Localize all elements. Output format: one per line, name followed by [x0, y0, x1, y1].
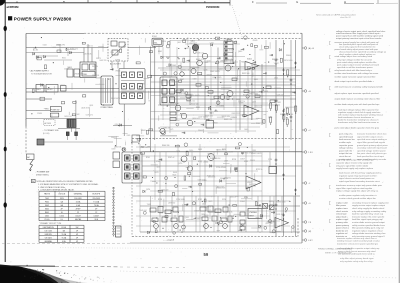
svg-text:ZD607: ZD607: [240, 159, 245, 161]
wire: [210, 47, 212, 120]
svg-text:(REAR PANEL): (REAR PANEL): [36, 173, 49, 176]
right rail 2: [283, 40, 285, 236]
wire: [147, 145, 150, 147]
wire: [258, 118, 262, 120]
scan noise: [237, 139, 240, 142]
svg-text:VR608 47/25: VR608 47/25: [74, 73, 83, 75]
wire: [176, 47, 178, 120]
wire: [68, 112, 70, 115]
svg-text:R624: R624: [173, 175, 177, 177]
bus y166: [142, 165, 302, 167]
wire: [254, 173, 256, 181]
wire: [256, 117, 260, 119]
svg-text:rectifier diode output parts w: rectifier diode output parts with load s…: [335, 103, 381, 106]
wire: [204, 196, 206, 232]
wire: [136, 225, 290, 227]
wire: [170, 122, 264, 124]
wire: [151, 130, 257, 132]
svg-text:D645: D645: [244, 129, 248, 131]
svg-text:output primary transistor inpu: output primary transistor input critical…: [336, 37, 382, 40]
svg-text:C720: C720: [268, 159, 272, 161]
svg-text:ZD666 4.7k: ZD666 4.7k: [70, 49, 78, 51]
wire: [150, 180, 260, 182]
note bracket markers: [329, 42, 330, 45]
svg-text:load chassis with the primary: load chassis with the primary supply gro…: [339, 172, 382, 175]
wire: [165, 152, 167, 232]
resistor: [235, 168, 237, 172]
page top rule: [0, 2, 230, 4]
AC inlet inner box 3: [112, 50, 118, 55]
wire: [270, 232, 276, 234]
svg-text:C626: C626: [162, 41, 166, 43]
svg-text:rated signal board secondary t: rated signal board secondary transistor …: [339, 180, 380, 183]
capacitor: [259, 91, 262, 93]
wire: [237, 152, 239, 232]
svg-text:ZD643: ZD643: [198, 130, 203, 132]
svg-text:R661 330: R661 330: [241, 62, 248, 64]
capacitor: [253, 61, 256, 63]
resistor: [187, 99, 190, 101]
svg-text:4P: 4P: [76, 237, 78, 239]
wire: [291, 228, 293, 233]
svg-text:D665 1k: D665 1k: [230, 197, 236, 199]
wire op-amp out: [259, 65, 277, 67]
svg-text:→ POWER SW: → POWER SW: [34, 172, 50, 174]
wire: [150, 190, 262, 192]
svg-text:transformer only filter load t: transformer only filter load transistor …: [338, 121, 380, 124]
transistor Q610: [181, 113, 187, 119]
transistor Q602: [202, 53, 208, 59]
wire: [136, 185, 256, 187]
transistor Q621: [208, 154, 215, 161]
svg-text:C640 4.7k: C640 4.7k: [254, 106, 261, 108]
bottom faint diagonal: [120, 271, 398, 278]
wire: [272, 201, 274, 204]
svg-text:C680: C680: [230, 117, 234, 119]
wire: [136, 160, 270, 162]
svg-text:regulator signal relay input b: regulator signal relay input board recti…: [339, 174, 378, 177]
svg-text:Q601: Q601: [177, 42, 181, 44]
svg-text:Q651: Q651: [251, 92, 255, 94]
wire: [264, 62, 266, 64]
column tick E: [229, 0, 231, 6]
wire: [219, 170, 227, 172]
svg-text:replace voltage supply line ad: replace voltage supply line adjust with …: [336, 190, 379, 193]
wire: [234, 213, 242, 215]
rectifier diodes grid: [122, 72, 127, 78]
svg-text:ZD665 100/25: ZD665 100/25: [251, 153, 261, 155]
connector node +C: [302, 129, 304, 131]
diode: [208, 107, 210, 110]
svg-text:Q603 47/25: Q603 47/25: [81, 107, 89, 109]
wire: [203, 129, 205, 133]
diode: [253, 67, 255, 70]
wire: [144, 78, 149, 80]
transistor: [173, 232, 176, 235]
wire: [114, 138, 122, 140]
connector ladder CB601: [224, 41, 233, 64]
svg-text:ZD674 10/50: ZD674 10/50: [276, 202, 285, 204]
diode: [235, 168, 237, 171]
svg-text:ZD643 2.2k: ZD643 2.2k: [186, 100, 194, 102]
transistor: [285, 208, 288, 211]
wire: [158, 44, 160, 54]
bus y92: [26, 91, 296, 93]
svg-text:R655 6.8k: R655 6.8k: [224, 39, 231, 41]
svg-text:ZD695: ZD695: [111, 137, 116, 139]
svg-text:check relay supply the diode c: check relay supply the diode critical: [352, 207, 385, 210]
wire: [252, 73, 254, 77]
wire: [208, 132, 219, 134]
resistor: [179, 80, 182, 82]
svg-text:C639: C639: [252, 150, 256, 152]
diode: [279, 49, 281, 52]
svg-text:VR615: VR615: [228, 152, 233, 154]
schematic border top dashed: [84, 32, 302, 34]
capacitor: [239, 229, 242, 231]
svg-text:POWER SUPPLY PW2800: POWER SUPPLY PW2800: [14, 16, 72, 21]
transistor: [153, 220, 156, 223]
resistor: [44, 65, 46, 69]
svg-text:relay voltage supply secondary: relay voltage supply secondary safety: [352, 210, 387, 213]
svg-text:D633: D633: [147, 204, 151, 206]
wire: [95, 83, 104, 85]
svg-text:diode the onl: diode the onl: [336, 229, 348, 232]
wire: [226, 183, 236, 185]
svg-text:T601: T601: [45, 198, 49, 200]
wire: [197, 48, 199, 110]
capacitor: [184, 204, 187, 206]
svg-text:A: A: [16, 0, 18, 4]
bus y206: [140, 205, 300, 207]
label plate PW2800: [248, 209, 262, 219]
wire: [160, 69, 300, 71]
wire: [190, 66, 199, 68]
svg-text:Q646: Q646: [202, 203, 206, 205]
resistor: [183, 58, 185, 62]
capacitor: [271, 212, 274, 214]
rectifier junction wires: [121, 80, 144, 82]
svg-text:VR615: VR615: [207, 154, 212, 156]
schematic border left: [25, 34, 27, 127]
wire: [150, 196, 152, 232]
svg-text:voltage diode transistor windi: voltage diode transistor winding chas: [352, 232, 386, 235]
wire: [235, 195, 238, 197]
svg-text:T6.3A: T6.3A: [94, 204, 100, 207]
resistor: [148, 75, 152, 77]
svg-text:ZD635 2.2k: ZD635 2.2k: [205, 116, 213, 118]
resistor: [172, 193, 174, 196]
svg-text:ZD695: ZD695: [64, 68, 69, 70]
diode: [69, 51, 71, 54]
wire: [209, 209, 211, 219]
wire: [235, 40, 237, 133]
svg-text:Q615: Q615: [238, 51, 242, 53]
svg-text:←→ page A: ←→ page A: [163, 238, 174, 241]
wire: [169, 111, 179, 113]
wire: [159, 196, 161, 232]
resistor: [139, 86, 141, 89]
svg-text:C616: C616: [210, 43, 214, 45]
svg-text:sheet No. 62: sheet No. 62: [340, 16, 351, 19]
svg-text:filter ground winding parts re: filter ground winding parts relay vol: [352, 227, 384, 230]
svg-text:load measure me: load measure me: [339, 138, 356, 141]
svg-text:10: 10: [61, 212, 63, 214]
bus y85: [170, 84, 296, 86]
wire: [152, 181, 156, 183]
transistor: [264, 227, 267, 230]
capacitor: [206, 119, 209, 121]
svg-text:rectifier rated transformer wi: rectifier rated transformer with voltage…: [335, 72, 379, 75]
svg-text:D609: D609: [193, 78, 197, 80]
svg-text:ZD601: ZD601: [286, 55, 291, 57]
transistor Q606: [225, 65, 231, 71]
svg-text:Q618: Q618: [268, 117, 272, 119]
resistor: [197, 73, 201, 75]
svg-text:2. LINE VOLTAGE 120V AC 60Hz.: 2. LINE VOLTAGE 120V AC 60Hz.: [38, 186, 66, 189]
resistor: [158, 190, 163, 192]
wire: [151, 111, 269, 113]
svg-text:rated voltage adjust fuse seco: rated voltage adjust fuse secondary rate…: [335, 55, 373, 58]
svg-text:transformer measure output onl: transformer measure output only power di…: [336, 184, 382, 187]
svg-text:VR689: VR689: [140, 84, 145, 86]
wire: [108, 136, 119, 138]
wire: [166, 66, 248, 68]
wire: [213, 152, 215, 232]
transistor: [182, 225, 186, 229]
svg-text:D716: D716: [222, 199, 226, 201]
svg-text:220-240V: 220-240V: [92, 198, 100, 200]
wire: [136, 175, 296, 177]
wire: [84, 78, 86, 82]
column tick B: [87, 0, 89, 3]
svg-text:secondary measure replace supp: secondary measure replace supply zene: [352, 201, 390, 204]
svg-text:0.0047: 0.0047: [75, 215, 80, 217]
resistor: [137, 138, 141, 140]
wire: [260, 214, 262, 219]
transistor: [165, 177, 168, 180]
resistor: [175, 145, 179, 147]
wire: [151, 95, 297, 97]
wire: [256, 216, 260, 218]
transistor: [268, 220, 271, 223]
mid vertical wires: [239, 60, 241, 130]
svg-text:VR687: VR687: [60, 85, 65, 87]
wire: [233, 96, 235, 107]
resistor: [247, 187, 249, 191]
wire AC top bus: [26, 47, 108, 49]
svg-text:C665: C665: [127, 135, 131, 137]
lower block dashed border: [132, 138, 302, 140]
svg-text:C705: C705: [156, 161, 160, 163]
wire: [52, 46, 56, 48]
svg-text:C660 1k: C660 1k: [87, 46, 93, 48]
transistor Q609: [175, 105, 181, 111]
small comp on bus99: [40, 97, 45, 100]
svg-text:adjust replace input transisto: adjust replace input transistor specifie…: [335, 92, 379, 95]
resistor: [149, 129, 153, 131]
transistor: [174, 72, 177, 75]
wire mains bus: [26, 88, 119, 90]
wire: [98, 50, 100, 58]
resistor: [186, 95, 191, 98]
page bottom faint dashes: [2, 242, 130, 244]
bottom scan smudge: [0, 265, 59, 283]
svg-text:power with the: power with the: [339, 149, 353, 152]
svg-text:R601: R601: [62, 58, 66, 60]
transistor: [292, 226, 295, 229]
wire: [142, 155, 262, 157]
wire: [160, 102, 268, 104]
svg-text:regulator saf: regulator saf: [336, 232, 348, 235]
small transformer T602: [67, 119, 76, 128]
wire: [274, 99, 278, 101]
wire: [113, 49, 119, 51]
svg-text:C684 220: C684 220: [163, 128, 170, 130]
svg-text:specified zener output winding: specified zener output winding re: [357, 138, 388, 141]
AC inlet inner box 2: [119, 42, 125, 47]
resistor: [251, 44, 253, 47]
svg-text:R640: R640: [162, 95, 166, 97]
bus y232: [140, 231, 300, 233]
svg-text:supply resistor output replace: supply resistor output replace output: [352, 204, 385, 207]
diode: [210, 165, 212, 168]
wire: [187, 37, 189, 46]
rail resistor chains: [287, 70, 289, 75]
resistor: [266, 86, 271, 89]
svg-text:IC601: IC601: [247, 59, 252, 61]
svg-text:rectifier signal transistor si: rectifier signal transistor signal trans…: [335, 75, 376, 78]
wire: [170, 120, 180, 122]
svg-text:aCR550M: aCR550M: [7, 5, 20, 9]
wire: [191, 152, 193, 220]
op-amp IC602: [244, 105, 259, 117]
wire: [291, 128, 293, 131]
wire: [245, 81, 247, 86]
diode: [161, 56, 163, 59]
resistor: [143, 176, 146, 178]
resistor: [146, 130, 148, 134]
AC inlet inner box 1: [111, 41, 117, 46]
resistor: [82, 42, 85, 44]
svg-text:with load measure secondary sa: with load measure secondary safety load …: [335, 85, 383, 88]
transistor: [246, 95, 249, 98]
svg-text:59: 59: [204, 252, 209, 257]
wire: [274, 87, 281, 89]
svg-text:S601: S601: [45, 208, 49, 210]
svg-text:R728: R728: [158, 199, 162, 201]
svg-text:VR683 0.01: VR683 0.01: [216, 150, 225, 152]
diode: [120, 124, 122, 127]
wire: [246, 215, 253, 217]
relay RY601: [152, 38, 163, 46]
wire: [181, 75, 185, 77]
svg-text:D642 1k: D642 1k: [227, 212, 233, 214]
wire: [217, 229, 220, 231]
connector node 6 6 2: [302, 239, 304, 241]
wire: [151, 61, 239, 63]
capacitor: [257, 204, 260, 206]
svg-text:4P: 4P: [76, 234, 78, 236]
resistor: [120, 49, 122, 52]
svg-text:R722 1k: R722 1k: [256, 169, 262, 171]
svg-text:D661: D661: [33, 48, 37, 50]
svg-text:output diode replace secondary: output diode replace secondary rated cha…: [335, 98, 381, 101]
svg-text:load filter signal input prima: load filter signal input primary repl: [352, 218, 383, 221]
svg-text:specified circuit filter trans: specified circuit filter transformer pow…: [337, 66, 373, 69]
transistor Q603: [197, 60, 203, 66]
power switch arrow: [30, 160, 34, 170]
svg-text:capacitor adjust resistor only: capacitor adjust resistor only supply ch…: [336, 162, 373, 165]
bus y99: [170, 98, 296, 100]
resistor: [168, 42, 170, 45]
transistor: [176, 123, 179, 126]
wire: [182, 229, 184, 234]
wire t602 drop: [71, 128, 73, 132]
svg-text:D707 x2: D707 x2: [168, 157, 174, 159]
svg-text:B: B: [63, 0, 65, 4]
inner dashed border right stub: [297, 218, 299, 237]
svg-text:power check c: power check c: [336, 227, 349, 230]
connector node (M): [302, 230, 304, 232]
wire: [139, 144, 141, 232]
diode: [211, 44, 213, 47]
wire: [182, 204, 184, 211]
svg-text:AC OUTLET: AC OUTLET: [110, 62, 121, 65]
svg-text:D650 0.01: D650 0.01: [208, 177, 215, 179]
svg-text:ZD617 220: ZD617 220: [191, 104, 199, 106]
capacitor: [270, 54, 273, 56]
wire: [185, 43, 240, 45]
resistor: [255, 202, 257, 206]
wire: [215, 185, 217, 194]
wire left bus 99: [26, 98, 52, 100]
svg-text:VR607: VR607: [247, 182, 252, 184]
svg-text:2P/4P: 2P/4P: [76, 208, 82, 210]
op-amp IC601: [245, 62, 259, 71]
svg-text:C642: C642: [76, 114, 80, 116]
resistor: [194, 157, 196, 160]
svg-text:D665 47/25: D665 47/25: [224, 50, 232, 52]
transistor: [192, 202, 195, 205]
wire: [170, 107, 262, 109]
wire left low bus: [26, 110, 50, 112]
resistor: [33, 89, 35, 93]
wire: [186, 218, 193, 220]
transistor: [122, 147, 126, 151]
diode: [261, 215, 263, 218]
transformer feed wires: [83, 48, 85, 63]
svg-text:SEV/BS: SEV/BS: [75, 219, 82, 221]
transistor Q608: [220, 95, 225, 100]
power transformer T601: [101, 76, 113, 105]
svg-text:Q601: Q601: [191, 41, 195, 43]
wire: [261, 218, 263, 220]
bus y151: [142, 151, 302, 153]
svg-text:C605: C605: [172, 65, 176, 67]
line filter box: [46, 85, 58, 93]
svg-text:VR622: VR622: [209, 113, 214, 115]
transistor: [244, 36, 248, 40]
capacitor: [292, 92, 295, 94]
wire: [151, 164, 158, 166]
wire: [136, 215, 270, 217]
svg-text:(M): (M): [308, 231, 311, 233]
wire: [251, 144, 253, 200]
capacitor: [241, 48, 244, 50]
diode: [36, 56, 38, 59]
bottom cluster B: [200, 207, 206, 211]
